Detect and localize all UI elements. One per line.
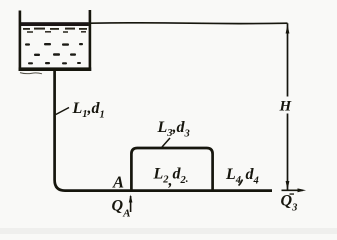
water dots row 4 bbox=[34, 53, 76, 56]
leader for L3,d3 bbox=[162, 138, 170, 147]
water dashes row 1 bbox=[23, 28, 87, 30]
water dots row 5 bbox=[28, 62, 81, 64]
water dots row 3 bbox=[25, 43, 83, 46]
tank left wall bbox=[19, 11, 22, 72]
arrowhead up (top of H line) bbox=[286, 25, 290, 34]
bar over Q3 subscript bbox=[290, 193, 295, 194]
leader for L1,d1 bbox=[56, 108, 69, 115]
arrow QA up bbox=[130, 196, 132, 212]
water surface band bbox=[21, 22, 89, 26]
leader for L4,d4 bbox=[239, 180, 243, 186]
tank bottom bbox=[19, 67, 92, 71]
arrowhead down (bottom of H line) bbox=[286, 181, 290, 190]
wire: H dimension vertical line bbox=[287, 23, 289, 189]
tank right wall bbox=[89, 10, 92, 71]
pipe: vertical L1 pipe and horizontal main pipe bbox=[55, 71, 272, 191]
wire: water surface level line to right bbox=[91, 22, 288, 25]
svg-text:H: H bbox=[279, 99, 293, 115]
arrow Q3 right bbox=[282, 189, 304, 191]
gap in H line behind label bbox=[281, 97, 292, 114]
water dashes row 2 bbox=[27, 31, 86, 33]
pipe: loop L3 (rounded) bbox=[131, 148, 212, 190]
scribble under tank bottom bbox=[20, 73, 42, 74]
svg-text:A: A bbox=[112, 173, 124, 192]
